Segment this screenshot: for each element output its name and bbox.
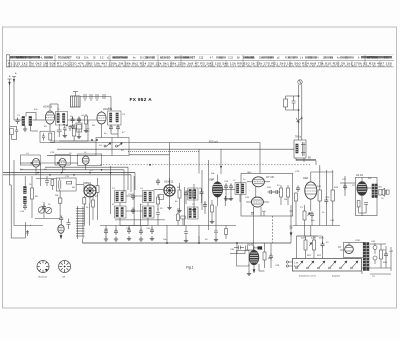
node dots bus	[166, 242, 238, 244]
resistor R16	[331, 170, 335, 226]
triode V11 small	[58, 225, 64, 239]
capacitor C12	[116, 125, 120, 132]
capacitor C42	[384, 246, 388, 268]
svg-text:C19: C19	[224, 181, 229, 183]
switch contact S4	[307, 261, 314, 269]
capacitor C6	[77, 117, 81, 124]
capacitor C16	[131, 208, 135, 215]
svg-text:a2: a2	[277, 58, 280, 60]
wire osc connections	[20, 162, 85, 175]
parts near det base	[181, 216, 185, 226]
IF transformer T2 bars	[108, 111, 122, 125]
svg-text:P1: P1	[300, 207, 303, 209]
mains dropper R21	[304, 236, 312, 259]
wire det top link	[296, 158, 316, 165]
wire IF grid links	[120, 196, 148, 226]
wire ladder to bus	[81, 239, 83, 243]
wire gang to V2	[102, 130, 119, 138]
antenna coil L1	[22, 117, 25, 126]
grid leak box V1	[40, 131, 54, 142]
svg-text:R1: R1	[44, 126, 48, 128]
capacitor C37	[246, 246, 248, 250]
svg-text:R16: R16	[334, 187, 339, 189]
wire coil bottoms	[25, 126, 38, 132]
capacitor C23	[292, 96, 296, 110]
capacitor C7 trimmer	[84, 94, 86, 101]
resistor R32	[83, 196, 86, 212]
resistor R5b	[51, 180, 54, 191]
oscillator coil box L3	[71, 92, 81, 108]
svg-text:8k: 8k	[175, 201, 178, 203]
wire grid circuit loop	[59, 120, 89, 141]
electrolytic C40	[373, 243, 377, 254]
svg-text:BESKED: BESKED	[160, 56, 171, 59]
svg-text:C38: C38	[275, 265, 280, 267]
capacitor C14	[23, 204, 27, 211]
svg-text:05: 05	[93, 58, 96, 60]
capacitor C25	[324, 170, 328, 226]
svg-text:T8: T8	[352, 185, 355, 187]
resistor R37	[177, 208, 180, 226]
small box R3	[76, 123, 82, 134]
svg-text:L4: L4	[26, 153, 29, 155]
svg-text:2 k: 2 k	[300, 58, 304, 60]
svg-text:4n: 4n	[133, 58, 136, 60]
wire bus h1	[57, 148, 294, 150]
tube V4 UCH21 socket top-view	[164, 178, 175, 205]
parts list strip	[6, 55, 394, 68]
svg-text:T3: T3	[112, 188, 115, 190]
svg-text:5W: 5W	[368, 178, 372, 180]
socket diagram X2	[59, 261, 71, 273]
svg-text:R5: R5	[35, 196, 39, 198]
wire antenna down-leads	[10, 82, 15, 158]
svg-text:C31: C31	[104, 229, 109, 231]
svg-text:R18: R18	[76, 58, 81, 60]
wire drop x221	[220, 149, 222, 174]
svg-text:C16: C16	[128, 194, 133, 196]
ground R3	[77, 134, 81, 139]
band switch ladder	[76, 206, 85, 239]
svg-text:S2: S2	[121, 150, 124, 152]
mains plug leads	[286, 261, 292, 267]
tube V3c triode	[82, 156, 89, 164]
resistor R12	[287, 185, 290, 205]
svg-text:C15: C15	[65, 176, 70, 178]
capacitor C38	[269, 243, 273, 268]
svg-text:25: 25	[48, 204, 51, 206]
IF coil T1a	[57, 114, 59, 123]
heater wiring drop	[199, 236, 253, 250]
switch contact S7	[340, 261, 347, 269]
capacitor C62	[69, 125, 72, 131]
svg-text:UAF: UAF	[303, 176, 309, 180]
V4 grid parts cluster	[154, 179, 164, 211]
tube V1 UCH21 mixer	[45, 104, 54, 131]
wire mark on twin lead	[296, 118, 302, 122]
small box C56	[77, 125, 82, 132]
svg-text:UY: UY	[338, 246, 342, 249]
svg-text:50: 50	[64, 130, 67, 132]
thermal fuse	[321, 236, 325, 259]
tuning gang box	[50, 138, 129, 156]
node dots grid	[63, 124, 98, 141]
capacitor C17	[184, 191, 188, 198]
svg-text:C26: C26	[330, 220, 335, 222]
output stage box	[356, 178, 378, 216]
wire phono twin lead	[299, 84, 302, 140]
ground R2	[84, 128, 88, 133]
wire demod box drop	[290, 205, 293, 243]
tube V7 UAF42 det-AF	[305, 172, 317, 211]
capacitor C19	[224, 184, 228, 191]
oscillator box A	[20, 155, 40, 165]
capacitor C5	[71, 117, 75, 124]
svg-text:220V: 220V	[301, 238, 307, 240]
svg-text:x1: x1	[107, 58, 110, 60]
tube V6b diode	[246, 197, 269, 207]
tube V2 UCH21 IF amp	[97, 111, 106, 130]
volume pot P1	[303, 211, 310, 226]
node dot AVC	[149, 164, 151, 166]
svg-text:C9: C9	[122, 114, 126, 116]
resistor R38	[225, 226, 228, 240]
capacitor C9 trimmer	[96, 94, 98, 101]
rectifier tube V10 UY41	[345, 243, 354, 254]
wire V5 out	[223, 184, 241, 203]
svg-text:C1: C1	[17, 115, 21, 117]
svg-text:5k: 5k	[86, 207, 89, 209]
svg-text:C13: C13	[50, 152, 55, 154]
switch S1 inside gang	[104, 143, 111, 147]
capacitor C59 cathode	[359, 203, 368, 214]
capacitor C53	[203, 201, 207, 214]
switch contact S6	[329, 261, 336, 269]
svg-text:bagsiden: bagsiden	[332, 276, 340, 278]
switch contact S3	[296, 261, 303, 269]
svg-text:110V: 110V	[319, 238, 324, 240]
antenna coil L2	[29, 117, 32, 126]
wire bus pair left	[3, 167, 135, 175]
antenna A1 terminal	[8, 79, 12, 85]
svg-text:C24: C24	[295, 171, 300, 173]
capacitor C61	[63, 126, 67, 138]
wire AVC dashed drop	[271, 216, 273, 243]
svg-text:0u1: 0u1	[262, 211, 266, 213]
wire drop x199	[198, 149, 200, 173]
bypass cap row c33	[127, 226, 131, 241]
svg-text:1n: 1n	[78, 121, 81, 123]
svg-text:C15: C15	[199, 58, 204, 60]
svg-text:4 7: 4 7	[210, 58, 214, 60]
resistor R13 loop	[284, 96, 299, 110]
svg-text:L.W: L.W	[294, 263, 299, 265]
switch contact S8	[351, 261, 358, 269]
bypass cap row c32	[114, 226, 118, 242]
resistor R33	[94, 185, 96, 187]
svg-text:4u: 4u	[337, 58, 340, 60]
IF transformer T3 bars	[115, 191, 127, 203]
svg-text:L7: L7	[233, 180, 236, 182]
resistor R2	[85, 116, 88, 124]
svg-text:5 C: 5 C	[100, 58, 104, 60]
svg-text:C6: C6	[81, 115, 85, 117]
svg-text:6: 6	[358, 58, 360, 60]
IF coil T1b	[63, 114, 65, 123]
capacitor C58	[67, 219, 71, 230]
svg-text:R4: R4	[92, 125, 96, 127]
wire det bottom bus	[293, 159, 340, 236]
tube V3a triode	[32, 158, 39, 167]
svg-text:C33: C33	[126, 228, 131, 230]
resistor R15	[318, 165, 322, 226]
resistor R8	[178, 183, 181, 208]
wire bus h1b	[50, 142, 260, 144]
phono jack J1	[298, 80, 302, 84]
value labels scatter	[9, 72, 394, 278]
tube V3b triode	[59, 158, 66, 167]
wire output stage	[340, 176, 372, 216]
capacitor C1	[16, 118, 20, 125]
left rail components: coil L4	[24, 187, 27, 194]
capacitor C15	[131, 194, 135, 201]
ground R9	[192, 207, 196, 212]
cathode loop V9	[237, 251, 250, 267]
svg-text:T9: T9	[372, 276, 375, 278]
svg-text:TEGNERET: TEGNERET	[58, 56, 72, 59]
svg-text:A: A	[15, 72, 17, 75]
resistor R31	[58, 191, 62, 217]
svg-text:L5: L5	[69, 153, 72, 155]
svg-text:C27: C27	[342, 179, 347, 181]
antenna A2 terminal	[12, 77, 16, 82]
capacitor C63	[184, 226, 188, 243]
svg-text:C40: C40	[371, 241, 376, 243]
capacitor C14b	[45, 176, 49, 186]
svg-text:1n: 1n	[243, 179, 246, 181]
mains dropper R22	[313, 236, 316, 259]
capacitor C50	[59, 216, 63, 226]
svg-text:C14: C14	[20, 211, 25, 213]
bypass cap row c35	[150, 226, 154, 241]
svg-text:Bund set: Bund set	[39, 276, 48, 279]
wire V1 anode top	[50, 104, 58, 113]
demod rectangle loop	[241, 174, 293, 217]
coil L7	[235, 183, 246, 195]
ground C20	[229, 196, 233, 201]
resistor R20	[263, 243, 266, 268]
svg-text:T5: T5	[192, 204, 195, 206]
tube V8 UL41 output	[357, 178, 367, 207]
svg-text:800: 800	[379, 187, 383, 189]
svg-text:R23: R23	[383, 262, 388, 264]
svg-text:47p: 47p	[34, 109, 38, 111]
svg-text:C42: C42	[389, 251, 394, 253]
resistor R9	[193, 184, 196, 207]
svg-text:R9: R9	[351, 58, 355, 60]
wire V9 top plate	[230, 243, 254, 254]
capacitor C51	[42, 202, 46, 218]
ground C5	[70, 124, 74, 129]
svg-text:F1: F1	[326, 242, 329, 244]
grid capacitor C37b dark	[254, 246, 262, 249]
capacitor C21	[268, 190, 275, 194]
svg-text:UY 1N: UY 1N	[266, 175, 274, 179]
wire T2 bottom	[111, 125, 118, 134]
wire V9 bottom legs	[247, 264, 265, 276]
coil L5	[24, 197, 27, 204]
svg-text:R20: R20	[268, 258, 273, 260]
resistor R34	[72, 124, 75, 141]
tube V4b socket top-view	[84, 185, 96, 203]
wire V3 plate riser	[129, 143, 170, 185]
node dots phono	[298, 95, 303, 123]
capacitor C8 trimmer	[90, 94, 92, 101]
capacitor C26	[310, 212, 314, 226]
capacitor C20	[229, 184, 233, 191]
wire mid-bottom drops	[167, 206, 216, 243]
IF transformer T6c bars	[188, 207, 198, 219]
socket diagram X1	[37, 261, 49, 273]
capacitor C11	[109, 125, 113, 132]
svg-text:78 Kc: 78 Kc	[295, 136, 302, 139]
resistor R39 below V5	[210, 200, 214, 224]
svg-text:A: A	[9, 75, 11, 78]
svg-text:R8: R8	[177, 187, 181, 189]
rectifier loop	[344, 243, 365, 258]
IF transformer T7 vertical	[294, 140, 306, 158]
capacitor C36	[234, 246, 244, 250]
resistor R14	[295, 193, 298, 210]
svg-text:452 kc/s: 452 kc/s	[209, 141, 219, 144]
resistor R36 cathode	[357, 201, 360, 214]
svg-text:UBF: UBF	[209, 178, 215, 182]
bypass cap row c31	[104, 226, 108, 242]
svg-text:C35: C35	[146, 228, 151, 230]
resistor R23	[380, 244, 383, 268]
wire bundle corners down	[124, 167, 135, 192]
wire left rail	[10, 158, 33, 239]
IF transformer T6 bars	[143, 206, 155, 218]
resistor R5	[31, 188, 34, 199]
trimmer pair	[38, 207, 51, 214]
svg-text:R21: R21	[307, 255, 312, 257]
svg-text:T1: T1	[57, 109, 60, 111]
node dots bus pair	[37, 169, 111, 176]
power transformer T9	[363, 243, 369, 271]
wire v4 region verticals	[186, 160, 209, 230]
wire lower-left loop	[11, 222, 43, 238]
svg-text:C 22: C 22	[228, 58, 234, 60]
svg-text:R7: R7	[95, 196, 99, 198]
svg-text:UCH21: UCH21	[83, 182, 92, 185]
ground V4 cathode	[167, 205, 171, 210]
wire V1-V2 coupling	[68, 114, 98, 128]
AF output tube V9 UL41	[249, 246, 259, 272]
wire mid verticals	[111, 166, 185, 226]
svg-text:47: 47	[112, 204, 115, 206]
jack secondary	[385, 190, 389, 194]
svg-text:1M: 1M	[284, 199, 287, 201]
switch S2 inside gang	[116, 143, 123, 147]
svg-text:FX 952 A: FX 952 A	[130, 97, 153, 102]
svg-text:10 k: 10 k	[84, 58, 89, 60]
svg-text:1n: 1n	[260, 249, 263, 251]
bypass cap row c34	[139, 226, 143, 242]
svg-text:2p: 2p	[157, 195, 160, 197]
wire det rail top	[311, 168, 333, 172]
svg-text:UCH 21: UCH 21	[43, 105, 53, 109]
wire padder row	[80, 97, 111, 112]
svg-text:T4: T4	[140, 188, 143, 190]
resistor R11	[280, 185, 283, 205]
resistor R30	[96, 178, 99, 199]
svg-text:C36: C36	[230, 249, 235, 251]
svg-text:Kontakterne set fra: Kontakterne set fra	[299, 275, 317, 278]
electrolytic C41	[373, 256, 377, 264]
mains switch bank box	[293, 259, 362, 272]
svg-text:UBC: UBC	[247, 172, 252, 174]
svg-text:50k: 50k	[211, 173, 215, 175]
svg-text:1k: 1k	[322, 212, 325, 214]
svg-text:UY41: UY41	[355, 240, 361, 242]
capacitor C52	[200, 189, 204, 203]
svg-text:R22: R22	[317, 255, 322, 257]
svg-text:C25: C25	[325, 197, 330, 199]
wire switch box risers	[297, 236, 323, 259]
osc components box	[56, 178, 76, 191]
IF transformer T4 bars	[143, 191, 155, 203]
svg-text:84: 84	[63, 277, 66, 279]
capacitor C22	[274, 190, 281, 194]
svg-text:47: 47	[122, 132, 125, 134]
speaker LS	[379, 188, 385, 196]
svg-text:R15: R15	[317, 186, 322, 188]
svg-text:LS: LS	[381, 198, 384, 200]
wire left mid extras	[35, 164, 98, 226]
output transformer T8	[372, 184, 377, 198]
oscillator box B	[55, 155, 70, 166]
right rail	[390, 247, 392, 271]
ground antenna coil	[23, 127, 27, 132]
svg-text:S1: S1	[99, 145, 102, 147]
svg-text:C4 47p 220p 50p 10n 0u1 25u 10: C4 47p 220p 50p 10n 0u1 25u 100p C9 5n 2…	[8, 66, 393, 68]
svg-text:50: 50	[205, 239, 208, 241]
svg-text:R6: R6	[72, 187, 76, 189]
svg-text:UL41: UL41	[247, 243, 254, 247]
wire dotted link	[128, 151, 199, 153]
svg-text:5p: 5p	[104, 133, 107, 135]
svg-text:UL 41: UL 41	[356, 173, 363, 177]
ground C19	[224, 196, 228, 201]
svg-text:1M: 1M	[199, 188, 202, 190]
capacitor C60	[156, 208, 160, 226]
wire psu links	[340, 244, 391, 274]
resistor R5c	[92, 196, 95, 220]
svg-text:L6: L6	[84, 152, 87, 154]
wire bus h2	[47, 154, 96, 156]
tube V6a diode	[247, 177, 270, 187]
label voltages	[301, 238, 324, 240]
ground R8	[177, 208, 181, 213]
svg-text:1n: 1n	[140, 204, 143, 206]
ground bus bottom	[82, 226, 291, 244]
svg-text:50n: 50n	[311, 220, 315, 222]
svg-text:50: 50	[277, 185, 280, 187]
svg-text:R11: R11	[267, 187, 272, 189]
wire antenna to coil	[14, 113, 46, 121]
wire drop x260	[259, 143, 261, 174]
